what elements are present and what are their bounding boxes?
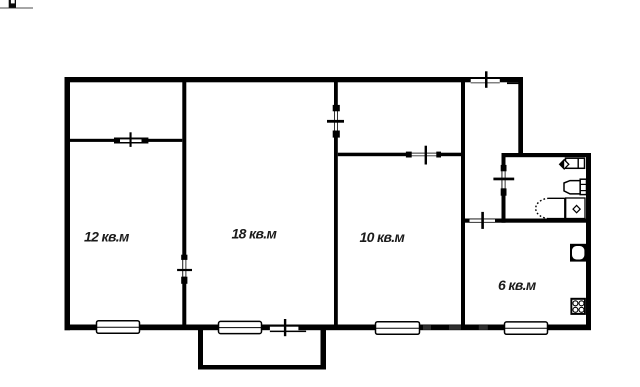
wall: outer right upper section (x518.3-523, y77-157) [518, 77, 523, 157]
wall: room12 top (y138.8-141.8) [70, 139, 182, 142]
svg-text:12 кв.м: 12 кв.м [84, 229, 130, 245]
door bathroom: bottom cap [501, 188, 507, 195]
window W3 below room10 [376, 322, 420, 335]
door room12 top: white inner [120, 139, 142, 142]
balcony door: white gap in bottom wall [270, 327, 299, 331]
wall: rooms 12/18 divider (x182.3-186.3) [182, 82, 186, 325]
wall: room10 top (y152.7-156.2) [338, 153, 465, 157]
wall: rooms 18/10 divider (x334-337.8) [334, 82, 338, 325]
bathtub [536, 198, 565, 218]
door room18 hallway: top cap [333, 105, 340, 111]
door room18 hallway: white gap [335, 111, 337, 130]
door room12/18: bottom cap [181, 277, 187, 284]
door room10 top: white gap [412, 154, 437, 156]
door room12/18: white gap [183, 260, 185, 277]
window W2 balcony block below room18 [219, 321, 262, 333]
door room10 top: right cap [436, 152, 441, 158]
wall: outer top (x64.5-523, y77-82.3) [65, 77, 524, 82]
balcony left wall [198, 330, 203, 370]
door bathroom: tick [493, 178, 514, 181]
svg-text:18 кв.м: 18 кв.м [232, 225, 278, 241]
watermark patches on bottom wall [423, 325, 488, 330]
door bathroom: top cap [501, 165, 507, 171]
door room18 hallway: tick [327, 120, 344, 123]
balcony bottom wall [198, 365, 326, 370]
toilet in bathroom [564, 179, 587, 194]
window W4 below kitchen [505, 322, 548, 334]
wall: outer left (x64.5-70) [65, 77, 71, 330]
door bathroom: white gap [502, 171, 504, 188]
wall: kitchen top / bathroom bottom (y218.5-222.7) [461, 219, 591, 223]
wall: bathroom left (x501.5-505.5, y153-222.7) [502, 153, 506, 223]
wall: bathroom top (y153-157) [502, 153, 592, 157]
balcony door: thin lower edge line [270, 331, 306, 333]
wall: lintel stub under top wall right [507, 82, 523, 84]
door room12 top: tick [130, 132, 132, 147]
entrance door: tick [485, 71, 488, 88]
door kitchen: white gap in kitchen top wall [470, 219, 496, 222]
kitchen stove [570, 298, 586, 315]
wall: outer right lower (x586-591, y153-330) [586, 153, 591, 330]
balcony right wall [321, 330, 327, 370]
wall: outer bottom (y324.5-330.2) [65, 325, 592, 331]
shower/sink square with diamond [566, 198, 585, 219]
svg-text:10 кв.м: 10 кв.м [360, 229, 406, 245]
cropped plan fragment top-left: white notch [11, 0, 15, 3]
svg-text:6 кв.м: 6 кв.м [498, 277, 537, 293]
balcony door: tick [284, 319, 286, 336]
entrance door top wall: white gap [471, 79, 500, 82]
cropped plan fragment top-left: gray line [0, 7, 33, 8]
door room12/18: top cap [181, 255, 187, 260]
window W1 below room12 [97, 321, 140, 334]
door room10 top: tick [425, 146, 427, 165]
washbasin in bathroom [560, 158, 585, 169]
door room10 top: left cap [406, 152, 412, 158]
cropped plan fragment top-left: black block [9, 0, 16, 8]
door kitchen: tick [481, 212, 484, 229]
door room12/18: tick [177, 269, 192, 271]
wall: corridor/kitchen vertical (x461-465, y82-325) [461, 82, 465, 325]
entrance door: thin bottom edge [471, 82, 500, 83]
kitchen sink [570, 244, 586, 262]
door room12 top: thick bar [114, 138, 148, 144]
door room18 hallway: bottom cap [333, 131, 340, 138]
